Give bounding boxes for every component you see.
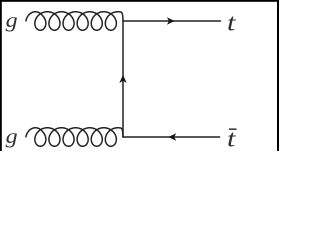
svg-text:g: g xyxy=(6,127,18,148)
svg-text:g: g xyxy=(6,11,18,32)
